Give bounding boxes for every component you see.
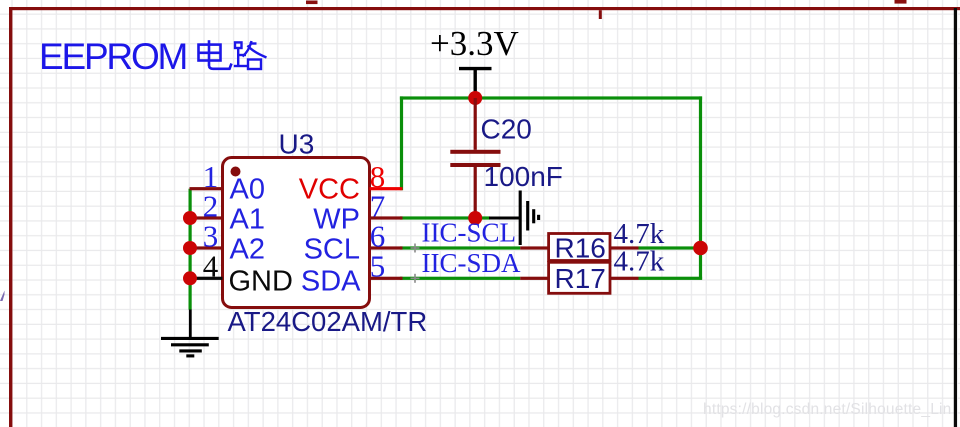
capacitor C20 bottom plate: [450, 163, 500, 167]
power port +3.3V bar symbol: [459, 69, 492, 97]
pin 5 line (SDA): [370, 277, 403, 280]
pin 4 line (GND): [190, 277, 223, 280]
wire: +3.3V top rail horizontal: [400, 96, 702, 99]
sheet zone number 2 (clipped at top): [895, 0, 907, 4]
svg-text:100nF: 100nF: [484, 161, 563, 192]
title 电 (drawn glyph): [199, 40, 232, 69]
junction: rail / C20 top: [468, 91, 482, 105]
wire: R17 row from vertical to stub: [639, 277, 703, 280]
junction: pin 4 / gnd net: [183, 271, 197, 285]
no-ERC cross on SDA row: [411, 274, 420, 283]
wire: SCL row green segment: [400, 246, 520, 249]
ground (right-pointing) bars: [520, 191, 538, 246]
title 路 (drawn glyph): [234, 41, 267, 69]
svg-text:VCC: VCC: [299, 174, 360, 206]
resistor R17 body: [549, 262, 610, 293]
wire: right drop to resistors: [699, 96, 702, 279]
junction: C20 bottom / WP row: [468, 211, 482, 225]
svg-text:EEPROM: EEPROM: [39, 36, 186, 77]
resistor R16 right lead: [610, 246, 639, 249]
resistor R16 left lead: [520, 246, 548, 249]
junction: R16 row / right vertical: [693, 241, 708, 256]
svg-text:U3: U3: [279, 129, 315, 160]
resistor R17 left lead: [520, 277, 548, 280]
pin 2 line (A1): [190, 216, 223, 219]
sheet edge black line (right): [954, 8, 957, 427]
no-ERC cross on SCL row: [411, 244, 420, 253]
svg-text:4: 4: [203, 249, 219, 284]
svg-text:IIC-SDA: IIC-SDA: [422, 248, 521, 278]
svg-text:4.7k: 4.7k: [614, 246, 665, 278]
svg-text:IIC-SCL: IIC-SCL: [422, 218, 517, 248]
sheet zone divider tick: [599, 10, 602, 19]
junction: pin 2 / gnd net: [183, 211, 197, 225]
junction: pin 3 / gnd net: [183, 241, 197, 255]
ground (earth) bars: [161, 338, 219, 356]
wire: GND vertical at U3 left: [189, 189, 192, 310]
sheet zone letter A (clipped at left edge): [0, 291, 5, 302]
wire: R16 row from stub to vertical: [639, 246, 701, 249]
svg-text:GND: GND: [229, 266, 293, 298]
svg-text:5: 5: [370, 249, 386, 284]
capacitor C20 bottom lead: [474, 167, 477, 218]
svg-text:R16: R16: [555, 233, 606, 264]
resistor R16 body: [549, 234, 610, 261]
ground (earth) below U3: stem: [189, 310, 192, 339]
sheet border left line: [9, 7, 12, 427]
svg-text:A0: A0: [230, 174, 265, 206]
svg-text:A1: A1: [230, 204, 265, 236]
wire: left drop to U3 pin 8: [400, 96, 403, 190]
sheet zone number 1 (clipped at top): [306, 1, 318, 5]
svg-text:R17: R17: [555, 263, 606, 294]
svg-text:AT24C02AM/TR: AT24C02AM/TR: [228, 306, 428, 337]
capacitor C20 top plate: [450, 150, 500, 154]
pin 8 line (VCC) red: [370, 187, 403, 190]
U3 pin-1 indicator dot: [231, 167, 241, 177]
svg-text:https://blog.csdn.net/Silhouet: https://blog.csdn.net/Silhouette_Lin: [703, 401, 951, 418]
capacitor C20 top lead: [474, 98, 477, 150]
resistor R17 right lead: [610, 277, 639, 280]
wire: WP row (pin7) to C20 bottom: [400, 216, 490, 219]
svg-text:+3.3V: +3.3V: [430, 24, 519, 63]
ground stem (right-pointing) at WP row: [489, 217, 520, 220]
IC U3 body: [223, 158, 370, 308]
pin 1 line (A0): [190, 187, 223, 190]
svg-text:WP: WP: [313, 204, 360, 236]
pin 3 line (A2): [190, 246, 223, 249]
sheet border top line: [9, 7, 960, 10]
svg-text:SDA: SDA: [301, 266, 361, 298]
pin 7 line (WP): [370, 216, 403, 219]
wire: SDA row green segment: [400, 277, 520, 280]
svg-text:C20: C20: [481, 113, 532, 144]
svg-text:SCL: SCL: [304, 234, 360, 266]
svg-text:A2: A2: [230, 234, 265, 266]
pin 6 line (SCL): [370, 246, 403, 249]
